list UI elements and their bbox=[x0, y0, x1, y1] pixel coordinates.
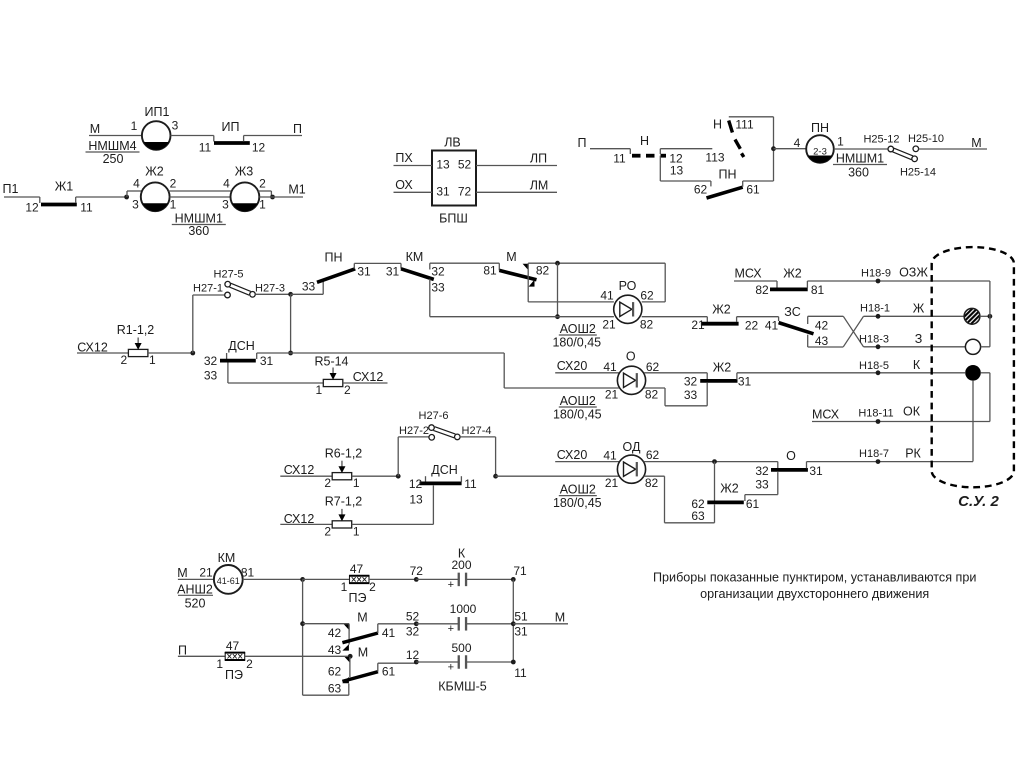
svg-text:КБМШ-5: КБМШ-5 bbox=[438, 679, 487, 693]
svg-text:47: 47 bbox=[350, 562, 364, 576]
svg-text:МСХ: МСХ bbox=[812, 407, 840, 421]
svg-text:32: 32 bbox=[431, 265, 445, 279]
svg-text:РК: РК bbox=[905, 446, 921, 460]
svg-text:81: 81 bbox=[241, 566, 255, 580]
svg-text:47: 47 bbox=[226, 639, 240, 653]
svg-text:61: 61 bbox=[746, 183, 760, 197]
svg-text:Н18-11: Н18-11 bbox=[858, 407, 893, 419]
svg-text:R6-1,2: R6-1,2 bbox=[325, 446, 363, 460]
svg-text:52: 52 bbox=[406, 610, 420, 624]
svg-text:ЛМ: ЛМ bbox=[530, 178, 549, 192]
svg-text:ПН: ПН bbox=[811, 121, 829, 135]
svg-text:ОК: ОК bbox=[903, 404, 921, 418]
svg-text:1: 1 bbox=[315, 383, 322, 397]
svg-text:Н18-5: Н18-5 bbox=[859, 360, 889, 372]
svg-text:ОХ: ОХ bbox=[395, 178, 413, 192]
svg-text:Н27-2: Н27-2 bbox=[399, 425, 429, 437]
svg-text:33: 33 bbox=[302, 280, 316, 294]
svg-text:13: 13 bbox=[409, 493, 423, 507]
svg-text:42: 42 bbox=[328, 626, 342, 640]
svg-text:РО: РО bbox=[619, 279, 637, 293]
svg-text:М: М bbox=[358, 645, 368, 659]
svg-text:2: 2 bbox=[344, 383, 351, 397]
svg-text:21: 21 bbox=[199, 566, 213, 580]
svg-text:2: 2 bbox=[324, 524, 331, 538]
svg-text:41: 41 bbox=[382, 626, 396, 640]
svg-text:62: 62 bbox=[640, 289, 654, 303]
svg-text:1: 1 bbox=[837, 135, 844, 149]
svg-text:1000: 1000 bbox=[450, 602, 477, 616]
svg-text:2: 2 bbox=[170, 177, 177, 191]
svg-text:Ж2: Ж2 bbox=[713, 360, 732, 374]
svg-text:62: 62 bbox=[328, 665, 342, 679]
svg-text:+: + bbox=[448, 579, 454, 591]
svg-text:520: 520 bbox=[185, 597, 206, 611]
svg-text:32: 32 bbox=[684, 375, 698, 389]
svg-text:М: М bbox=[971, 136, 981, 150]
svg-text:Н18-9: Н18-9 bbox=[861, 267, 891, 279]
svg-text:ПХ: ПХ bbox=[395, 151, 413, 165]
svg-text:ИП: ИП bbox=[222, 120, 240, 134]
svg-text:11: 11 bbox=[464, 477, 477, 491]
svg-text:3: 3 bbox=[132, 198, 139, 212]
svg-text:Ж3: Ж3 bbox=[235, 164, 254, 178]
svg-text:Н27-5: Н27-5 bbox=[214, 268, 244, 280]
svg-text:МСХ: МСХ bbox=[734, 266, 762, 280]
svg-text:организации двухстороннего дви: организации двухстороннего движения bbox=[700, 587, 929, 601]
svg-text:41: 41 bbox=[603, 360, 617, 374]
svg-text:63: 63 bbox=[691, 509, 705, 523]
svg-text:32: 32 bbox=[755, 464, 769, 478]
svg-text:О: О bbox=[786, 449, 796, 463]
svg-text:3: 3 bbox=[222, 198, 229, 212]
svg-text:Н27-1: Н27-1 bbox=[193, 282, 223, 294]
svg-text:ПЭ: ПЭ bbox=[349, 591, 367, 605]
svg-text:П: П bbox=[578, 136, 587, 150]
svg-text:З: З bbox=[915, 332, 923, 346]
svg-text:31: 31 bbox=[738, 375, 752, 389]
svg-text:21: 21 bbox=[605, 476, 619, 490]
svg-text:СХ12: СХ12 bbox=[77, 340, 108, 354]
svg-text:11: 11 bbox=[613, 152, 626, 166]
svg-text:БПШ: БПШ bbox=[439, 211, 468, 225]
svg-text:АОШ2: АОШ2 bbox=[560, 394, 596, 408]
svg-text:М: М bbox=[177, 566, 187, 580]
svg-text:Н27-3: Н27-3 bbox=[255, 282, 285, 294]
svg-text:21: 21 bbox=[605, 388, 619, 402]
svg-text:ОЗЖ: ОЗЖ bbox=[899, 265, 928, 279]
svg-text:ДСН: ДСН bbox=[431, 463, 458, 477]
svg-text:R1-1,2: R1-1,2 bbox=[117, 323, 155, 337]
svg-text:360: 360 bbox=[848, 165, 869, 179]
svg-text:ПН: ПН bbox=[718, 167, 736, 181]
svg-text:180/0,45: 180/0,45 bbox=[553, 496, 602, 510]
svg-text:82: 82 bbox=[645, 388, 659, 402]
svg-text:СХ12: СХ12 bbox=[353, 370, 384, 384]
svg-text:12: 12 bbox=[409, 477, 423, 491]
svg-text:72: 72 bbox=[458, 185, 472, 199]
svg-text:М: М bbox=[357, 610, 367, 624]
svg-text:ЛВ: ЛВ bbox=[444, 135, 461, 149]
svg-text:12: 12 bbox=[406, 648, 420, 662]
svg-text:31: 31 bbox=[357, 265, 371, 279]
svg-text:Ж: Ж bbox=[913, 301, 925, 315]
svg-text:51: 51 bbox=[514, 610, 528, 624]
svg-text:31: 31 bbox=[514, 625, 528, 639]
svg-text:ЗС: ЗС bbox=[784, 305, 800, 319]
svg-text:33: 33 bbox=[684, 388, 698, 402]
svg-text:Ж2: Ж2 bbox=[783, 266, 802, 280]
svg-text:Ж1: Ж1 bbox=[55, 179, 74, 193]
svg-text:Н25-10: Н25-10 bbox=[908, 133, 944, 145]
svg-text:63: 63 bbox=[328, 682, 342, 696]
svg-text:43: 43 bbox=[328, 643, 342, 657]
svg-text:61: 61 bbox=[746, 497, 760, 511]
svg-text:13: 13 bbox=[436, 158, 450, 172]
svg-text:33: 33 bbox=[431, 281, 445, 295]
svg-text:13: 13 bbox=[670, 164, 684, 178]
svg-text:41: 41 bbox=[765, 319, 779, 333]
svg-text:R7-1,2: R7-1,2 bbox=[325, 494, 363, 508]
svg-text:81: 81 bbox=[811, 283, 825, 297]
svg-text:111: 111 bbox=[735, 118, 754, 132]
svg-text:4: 4 bbox=[794, 136, 801, 150]
svg-text:2: 2 bbox=[369, 580, 376, 594]
svg-text:42: 42 bbox=[815, 319, 829, 333]
svg-text:360: 360 bbox=[188, 224, 209, 238]
svg-text:62: 62 bbox=[646, 360, 660, 374]
svg-text:82: 82 bbox=[536, 264, 550, 278]
svg-text:Приборы показанные пунктиром,: Приборы показанные пунктиром, устанавлив… bbox=[653, 571, 976, 585]
svg-text:500: 500 bbox=[451, 641, 471, 655]
svg-text:+: + bbox=[448, 661, 454, 673]
svg-text:2: 2 bbox=[324, 476, 331, 490]
svg-text:R5-14: R5-14 bbox=[314, 354, 348, 368]
svg-text:Н18-3: Н18-3 bbox=[859, 333, 889, 345]
svg-text:33: 33 bbox=[204, 369, 218, 383]
svg-text:12: 12 bbox=[25, 201, 39, 215]
svg-text:22: 22 bbox=[745, 319, 759, 333]
svg-text:Ж2: Ж2 bbox=[720, 481, 739, 495]
svg-text:ДСН: ДСН bbox=[228, 339, 255, 353]
svg-text:М: М bbox=[555, 611, 565, 625]
svg-text:М1: М1 bbox=[288, 182, 305, 196]
svg-text:31: 31 bbox=[436, 185, 450, 199]
svg-text:КМ: КМ bbox=[406, 250, 424, 264]
svg-text:АОШ2: АОШ2 bbox=[560, 483, 596, 497]
svg-text:2: 2 bbox=[246, 657, 253, 671]
svg-text:180/0,45: 180/0,45 bbox=[552, 336, 601, 350]
svg-text:Н: Н bbox=[640, 134, 649, 148]
svg-text:Н25-14: Н25-14 bbox=[900, 166, 936, 178]
svg-text:Н: Н bbox=[713, 117, 722, 131]
svg-text:С.У. 2: С.У. 2 bbox=[958, 493, 999, 510]
svg-text:113: 113 bbox=[705, 151, 724, 165]
svg-text:НМШМ4: НМШМ4 bbox=[88, 139, 136, 153]
svg-text:52: 52 bbox=[458, 158, 472, 172]
svg-text:1: 1 bbox=[259, 198, 266, 212]
svg-text:33: 33 bbox=[755, 478, 769, 492]
svg-text:41: 41 bbox=[603, 449, 617, 463]
svg-text:31: 31 bbox=[386, 265, 400, 279]
svg-text:62: 62 bbox=[646, 448, 660, 462]
svg-text:М: М bbox=[506, 250, 516, 264]
svg-text:32: 32 bbox=[406, 625, 420, 639]
svg-text:31: 31 bbox=[809, 464, 823, 478]
svg-text:ОД: ОД bbox=[623, 440, 641, 454]
svg-text:200: 200 bbox=[451, 558, 471, 572]
svg-text:+: + bbox=[448, 623, 454, 635]
svg-text:1: 1 bbox=[341, 580, 348, 594]
svg-text:ЛП: ЛП bbox=[530, 151, 547, 165]
svg-text:1: 1 bbox=[353, 476, 360, 490]
svg-text:1: 1 bbox=[149, 353, 156, 367]
svg-text:72: 72 bbox=[410, 564, 424, 578]
svg-text:Н27-4: Н27-4 bbox=[462, 425, 492, 437]
svg-text:Н25-12: Н25-12 bbox=[863, 133, 899, 145]
svg-text:21: 21 bbox=[691, 318, 705, 332]
svg-text:П1: П1 bbox=[3, 182, 19, 196]
svg-text:4: 4 bbox=[133, 177, 140, 191]
svg-text:82: 82 bbox=[755, 283, 769, 297]
svg-text:4: 4 bbox=[223, 177, 230, 191]
svg-text:11: 11 bbox=[80, 201, 93, 215]
svg-text:Н18-7: Н18-7 bbox=[859, 448, 889, 460]
svg-text:1: 1 bbox=[131, 119, 138, 133]
svg-text:ИП1: ИП1 bbox=[145, 105, 170, 119]
svg-text:1: 1 bbox=[216, 657, 223, 671]
svg-text:11: 11 bbox=[199, 141, 212, 155]
svg-text:О: О bbox=[626, 349, 636, 363]
svg-text:М: М bbox=[90, 122, 100, 136]
svg-text:АНШ2: АНШ2 bbox=[177, 582, 213, 596]
svg-text:82: 82 bbox=[645, 476, 659, 490]
svg-text:3: 3 bbox=[172, 119, 179, 133]
svg-text:2: 2 bbox=[259, 177, 266, 191]
svg-text:31: 31 bbox=[260, 354, 274, 368]
svg-text:32: 32 bbox=[204, 354, 218, 368]
svg-text:250: 250 bbox=[103, 152, 124, 166]
svg-text:АОШ2: АОШ2 bbox=[560, 322, 596, 336]
svg-text:1: 1 bbox=[170, 198, 177, 212]
svg-text:2-3: 2-3 bbox=[813, 146, 827, 157]
svg-text:Н27-6: Н27-6 bbox=[419, 410, 449, 422]
svg-text:Ж2: Ж2 bbox=[712, 302, 731, 316]
svg-text:КМ: КМ bbox=[218, 551, 236, 565]
svg-text:СХ12: СХ12 bbox=[284, 463, 315, 477]
svg-text:К: К bbox=[913, 358, 921, 372]
svg-text:81: 81 bbox=[483, 264, 497, 278]
svg-text:СХ20: СХ20 bbox=[557, 448, 588, 462]
svg-text:ПН: ПН bbox=[324, 250, 342, 264]
svg-text:Н18-1: Н18-1 bbox=[860, 302, 890, 314]
svg-text:41: 41 bbox=[600, 289, 614, 303]
svg-text:12: 12 bbox=[252, 141, 266, 155]
svg-text:62: 62 bbox=[694, 183, 708, 197]
svg-text:НМШМ1: НМШМ1 bbox=[836, 151, 884, 165]
svg-text:43: 43 bbox=[815, 334, 829, 348]
svg-text:71: 71 bbox=[513, 564, 527, 578]
svg-text:2: 2 bbox=[121, 353, 128, 367]
svg-text:П: П bbox=[178, 643, 187, 657]
svg-text:41-61: 41-61 bbox=[217, 576, 240, 586]
svg-text:1: 1 bbox=[353, 524, 360, 538]
svg-text:ПЭ: ПЭ bbox=[225, 668, 243, 682]
svg-text:Ж2: Ж2 bbox=[145, 164, 164, 178]
svg-text:11: 11 bbox=[514, 666, 527, 680]
svg-text:21: 21 bbox=[602, 318, 616, 332]
svg-text:180/0,45: 180/0,45 bbox=[553, 408, 602, 422]
svg-text:П: П bbox=[293, 122, 302, 136]
svg-text:82: 82 bbox=[640, 318, 654, 332]
svg-text:61: 61 bbox=[382, 665, 396, 679]
svg-text:СХ20: СХ20 bbox=[557, 359, 588, 373]
